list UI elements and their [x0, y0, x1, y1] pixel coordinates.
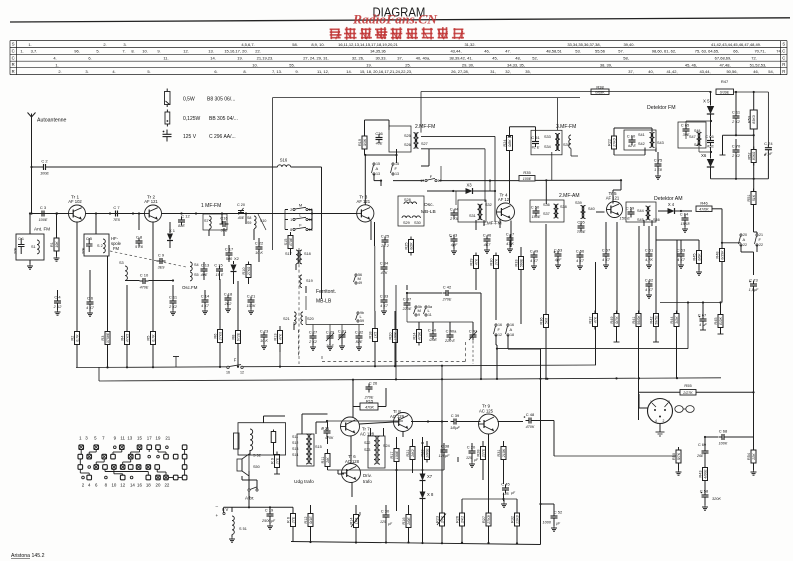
- resistor R45b: [714, 312, 723, 331]
- svg-text:125 V: 125 V: [183, 134, 197, 140]
- watermark CJK char 4: [375, 27, 387, 39]
- wire trimmer bottoms: [327, 340, 345, 350]
- coil S28: [404, 198, 417, 204]
- svg-text:1: 1: [290, 218, 292, 222]
- svg-text:S14: S14: [292, 453, 298, 457]
- wire C42: [406, 292, 481, 379]
- wire antenna node to C2: [32, 166, 42, 168]
- svg-text:C 46: C 46: [483, 232, 492, 237]
- svg-text:Detektor FM: Detektor FM: [647, 105, 676, 111]
- wire mid bus y180: [393, 179, 622, 204]
- watermark CJK char 2: [344, 27, 357, 40]
- capacitor C5: [82, 237, 93, 255]
- svg-text:S40: S40: [588, 207, 595, 211]
- top bus upper: [421, 91, 711, 93]
- svg-text:X3: X3: [466, 183, 472, 188]
- svg-text:S 51: S 51: [239, 527, 247, 531]
- wire C65 S47 links: [686, 120, 712, 153]
- wire C61: [646, 226, 652, 268]
- wire mixer node: [221, 212, 247, 224]
- svg-text:45,: 45,: [492, 56, 498, 61]
- svg-text:2.MF-AM: 2.MF-AM: [559, 193, 580, 199]
- svg-text:8,9, 10.: 8,9, 10.: [311, 42, 324, 47]
- svg-text:S39: S39: [575, 201, 582, 205]
- switch L tune: [424, 305, 433, 317]
- svg-text:10.: 10.: [252, 63, 258, 68]
- svg-text:S26: S26: [404, 143, 411, 147]
- capacitor C6: [86, 295, 95, 310]
- svg-text:C: C: [12, 48, 15, 53]
- capacitor C9: [157, 253, 166, 270]
- bottom bus: [291, 504, 541, 545]
- vertical x596: [0, 0, 1, 1]
- svg-text:470K: 470K: [417, 331, 421, 340]
- svg-text:6.: 6.: [214, 69, 217, 74]
- svg-text:S8: S8: [247, 216, 251, 220]
- svg-text:R12: R12: [304, 517, 308, 524]
- svg-text:58/5E: 58/5E: [654, 315, 658, 325]
- resistor R36: [540, 312, 549, 331]
- IF transformer S31 S32: [469, 203, 492, 220]
- svg-text:320K: 320K: [712, 497, 721, 501]
- svg-text:17: 17: [420, 179, 424, 183]
- svg-text:4: 4: [655, 419, 657, 423]
- diode X1: [167, 222, 176, 248]
- capacitor C4: [53, 294, 63, 309]
- svg-text:2: 2: [290, 208, 292, 212]
- wire loop 2MF-AM: [530, 200, 564, 222]
- svg-text:0,7K: 0,7K: [151, 334, 155, 342]
- svg-text:1.: 1.: [20, 49, 23, 54]
- svg-text:C 25: C 25: [381, 233, 390, 238]
- svg-text:8: 8: [290, 228, 292, 232]
- svg-text:S23: S23: [364, 448, 370, 452]
- capacitor C68: [719, 429, 728, 446]
- svg-text:R17: R17: [390, 452, 394, 459]
- capacitor C1: [14, 237, 25, 255]
- capacitor C40: [428, 327, 438, 342]
- svg-text:9: 9: [418, 313, 420, 317]
- svg-text:R5: R5: [147, 336, 151, 341]
- transistor Tr3: [357, 194, 374, 222]
- svg-text:R51: R51: [747, 195, 751, 202]
- capacitor C11b: [731, 92, 741, 136]
- svg-text:672E: 672E: [236, 332, 240, 341]
- switch M mid: [354, 273, 363, 285]
- svg-text:Osc.: Osc.: [424, 202, 434, 208]
- capacitor C65: [681, 122, 690, 137]
- label Detektor AM: [654, 196, 683, 202]
- svg-text:0,7K: 0,7K: [75, 334, 79, 342]
- capacitor C2: [40, 159, 49, 176]
- wire vertical x272: [272, 98, 274, 250]
- wire R49 down: [614, 327, 620, 343]
- capacitor C52: [541, 504, 563, 526]
- svg-text:C: C: [12, 55, 15, 60]
- svg-text:S47: S47: [689, 135, 696, 139]
- svg-text:27K0: 27K0: [247, 267, 251, 276]
- svg-text:2/K2: 2/K2: [460, 516, 464, 524]
- svg-text:FM: FM: [113, 246, 120, 251]
- capacitor C26: [364, 380, 378, 399]
- coil S3: [119, 261, 127, 280]
- switch L mid: [356, 311, 365, 323]
- svg-text:S: S: [12, 42, 15, 47]
- svg-text:S45: S45: [637, 218, 644, 222]
- wire AF right join: [741, 232, 757, 275]
- svg-text:3/2K: 3/2K: [675, 316, 679, 324]
- wire R33 down: [520, 247, 522, 324]
- wire C67: [700, 303, 706, 331]
- svg-text:227E: 227E: [481, 448, 485, 458]
- wire Tr9 out: [498, 421, 524, 423]
- legend 0.5W text: [183, 97, 235, 103]
- wire R45b down: [660, 301, 724, 334]
- wire R6: [219, 279, 221, 367]
- svg-text:3758E: 3758E: [106, 332, 110, 343]
- label 1 MF-FM: [201, 203, 221, 209]
- wire Tr5 base link: [596, 211, 605, 213]
- svg-text:47.: 47.: [505, 49, 511, 54]
- svg-text:S29: S29: [403, 221, 410, 225]
- svg-text:27E: 27E: [14, 247, 18, 255]
- svg-text:R: R: [782, 69, 785, 74]
- svg-text:Autoantenne: Autoantenne: [37, 118, 67, 124]
- resistor R29: [470, 253, 479, 272]
- resistor R13: [274, 328, 283, 347]
- wire R43: [704, 456, 706, 468]
- svg-text:75, 63, 64,65,: 75, 63, 64,65,: [695, 49, 719, 54]
- svg-text:3.: 3.: [85, 69, 88, 74]
- svg-text:X7: X7: [427, 474, 433, 479]
- label 2.MF-FM: [415, 124, 435, 130]
- wire antenna down: [30, 123, 32, 215]
- svg-text:R50: R50: [672, 453, 676, 460]
- wire C56 gnd: [577, 260, 583, 269]
- label Osc MB-LB: [421, 202, 436, 215]
- resistor R15: [360, 399, 378, 411]
- wire driv trafo frame: [368, 436, 385, 468]
- svg-text:47K5: 47K5: [125, 334, 129, 342]
- wire R44 down: [676, 327, 678, 379]
- wire C64 gnd: [682, 223, 688, 232]
- svg-text:16: 16: [226, 371, 230, 375]
- svg-text:10K: 10K: [55, 241, 59, 248]
- svg-text:39,40.: 39,40.: [623, 42, 634, 47]
- capacitor C70: [731, 139, 741, 179]
- svg-text:S16: S16: [280, 158, 288, 163]
- svg-text:57.: 57.: [618, 49, 624, 54]
- wire S31 bottom: [476, 220, 484, 230]
- svg-text:13: 13: [127, 436, 132, 441]
- svg-text:13: 13: [376, 172, 380, 176]
- resistor R32: [511, 499, 520, 544]
- svg-text:22: 22: [164, 483, 169, 488]
- svg-text:S3: S3: [119, 261, 124, 265]
- svg-text:3,7.: 3,7.: [31, 49, 38, 54]
- wire Tr3 collector up: [364, 154, 366, 205]
- resistor R3: [101, 329, 110, 348]
- resistor R42: [650, 311, 659, 330]
- svg-text:46,: 46,: [753, 69, 759, 74]
- wire 3mf to bus: [557, 98, 559, 130]
- resistor R16: [402, 512, 411, 531]
- wire C63: [678, 240, 684, 268]
- wire loop 1MF-FM: [458, 200, 486, 222]
- svg-text:12: 12: [240, 371, 244, 375]
- wire Tr1 emitter down: [76, 222, 78, 226]
- resistor R20: [389, 327, 398, 346]
- wire R41 down: [638, 327, 640, 379]
- svg-text:trafo: trafo: [363, 479, 372, 484]
- svg-text:S46: S46: [653, 218, 660, 222]
- wire det fm rail: [711, 135, 769, 180]
- svg-text:C 64: C 64: [680, 211, 689, 216]
- svg-text:C 48: C 48: [526, 412, 535, 417]
- svg-text:15: 15: [137, 436, 142, 441]
- svg-text:X2: X2: [234, 256, 240, 261]
- svg-text:AC 125: AC 125: [479, 409, 494, 414]
- top bus upper right: [709, 91, 768, 146]
- svg-text:50,56,: 50,56,: [726, 69, 737, 74]
- svg-text:R31: R31: [497, 450, 501, 457]
- svg-text:100K: 100K: [719, 442, 728, 446]
- wire C11: [170, 285, 176, 315]
- resistor R8: [232, 328, 241, 347]
- wire tuning pack tops: [407, 285, 473, 332]
- svg-text:27E: 27E: [275, 457, 279, 465]
- wire C73 down: [753, 289, 755, 393]
- capacitor C17: [225, 246, 234, 261]
- coil S2: [97, 239, 105, 253]
- svg-text:A: A: [743, 237, 746, 242]
- svg-text:74.: 74.: [776, 49, 782, 54]
- wire Tr2 collector bias: [152, 222, 154, 226]
- svg-text:C 18: C 18: [224, 291, 233, 296]
- svg-text:34,35,36: 34,35,36: [370, 49, 386, 54]
- svg-text:C 60: C 60: [627, 133, 636, 138]
- wire R29 down: [475, 269, 477, 290]
- svg-text:26E: 26E: [696, 454, 704, 458]
- svg-text:AC 129: AC 129: [390, 414, 405, 419]
- legend 125V capacitor symbol: [163, 130, 172, 142]
- IF transformer S33 S34 S35: [544, 134, 571, 151]
- svg-text:S24: S24: [383, 444, 390, 448]
- resistor R9: [271, 452, 280, 471]
- capacitor C8: [135, 234, 144, 249]
- wire corner down x321: [321, 167, 323, 299]
- svg-text:C 26: C 26: [369, 380, 378, 385]
- svg-text:16: 16: [137, 483, 142, 488]
- watermark RadioFans.CN: [352, 12, 438, 27]
- svg-text:9.: 9.: [157, 49, 160, 54]
- svg-text:45, 46,: 45, 46,: [685, 63, 697, 68]
- wire R19 C36 top: [365, 120, 390, 136]
- svg-text:C 20: C 20: [467, 444, 476, 449]
- capacitor C46: [483, 232, 492, 247]
- capacitor C19: [261, 507, 276, 523]
- svg-text:26, 27,28,: 26, 27,28,: [451, 69, 469, 74]
- potentiometer R14: [350, 512, 360, 531]
- diode X8: [420, 488, 434, 504]
- svg-text:Afbr.: Afbr.: [245, 496, 254, 501]
- resistor R51: [747, 189, 756, 208]
- resistor R49: [610, 311, 619, 330]
- svg-text:X 4: X 4: [668, 202, 675, 207]
- wire mid verticals: [441, 166, 491, 205]
- svg-text:56/0K: 56/0K: [637, 315, 641, 325]
- speaker S50: [237, 454, 260, 476]
- svg-text:C 9: C 9: [158, 253, 165, 258]
- speaker box: [234, 423, 286, 455]
- svg-text:7E5: 7E5: [113, 218, 121, 222]
- svg-text:4.: 4.: [53, 56, 56, 61]
- svg-text:C 2: C 2: [41, 159, 48, 164]
- antenna symbol: [28, 113, 36, 123]
- resistor R45: [693, 248, 702, 267]
- wire s21 down: [294, 296, 306, 330]
- wire S16 to corner: [291, 166, 322, 168]
- svg-text:Driv.: Driv.: [363, 473, 372, 478]
- svg-text:C 296 AA/...: C 296 AA/...: [209, 134, 236, 140]
- svg-text:470E: 470E: [140, 286, 149, 290]
- IF transformer S39 S40: [575, 201, 595, 219]
- svg-text:32, 26,: 32, 26,: [352, 56, 364, 61]
- resistor R33: [515, 254, 524, 273]
- wire C57: [603, 222, 609, 268]
- resistor R22: [608, 133, 617, 152]
- svg-text:33,34,35,36,37,38,: 33,34,35,36,37,38,: [567, 42, 600, 47]
- transistor Tr8: [390, 409, 413, 432]
- capacitor C22: [255, 240, 264, 255]
- watermark CJK char 6: [406, 28, 418, 40]
- svg-text:1 MF-FM: 1 MF-FM: [201, 203, 221, 209]
- svg-text:3E9: 3E9: [158, 266, 166, 270]
- svg-text:R42: R42: [650, 317, 654, 324]
- svg-text:C 10: C 10: [140, 273, 149, 278]
- svg-text:R35: R35: [523, 170, 531, 175]
- svg-text:19.: 19.: [366, 63, 372, 68]
- wire vertical x396 mid: [395, 285, 397, 381]
- capacitor C40a: [444, 328, 457, 343]
- label Ferritont MB-LB: [316, 289, 336, 305]
- vertical x569: [0, 0, 1, 1]
- svg-text:4,5,6,7.: 4,5,6,7.: [241, 42, 254, 47]
- svg-text:27E: 27E: [82, 247, 86, 255]
- capacitor C48: [524, 412, 535, 429]
- capacitor C12: [178, 213, 190, 228]
- svg-text:8.: 8.: [243, 69, 246, 74]
- wire R9: [274, 468, 293, 542]
- capacitor C62: [645, 277, 654, 292]
- svg-text:37,: 37,: [397, 56, 403, 61]
- svg-text:C55: C55: [577, 219, 585, 224]
- svg-text:C: C: [782, 48, 785, 53]
- wire osc link: [125, 279, 174, 281]
- svg-text:22: 22: [743, 243, 747, 247]
- resistor R2: [71, 329, 80, 348]
- svg-text:S1: S1: [31, 245, 36, 249]
- capacitor C63: [677, 247, 686, 262]
- capacitor C49: [530, 248, 539, 263]
- svg-text:0/1E: 0/1E: [309, 516, 313, 524]
- wire det AM S44 bottom: [644, 220, 652, 226]
- svg-text:S 2: S 2: [97, 244, 103, 248]
- svg-text:S4: S4: [194, 263, 199, 267]
- svg-text:R11: R11: [321, 457, 325, 464]
- wire Tr7 Tr8: [360, 422, 394, 424]
- wire rail to Tr5: [613, 181, 621, 204]
- resistor R44: [670, 311, 679, 330]
- wire C21 gnd: [248, 305, 254, 314]
- svg-text:C 50: C 50: [531, 204, 540, 209]
- label 2.MF-AM: [559, 193, 580, 199]
- svg-text:47K: 47K: [278, 333, 282, 340]
- svg-text:AF 121: AF 121: [144, 199, 158, 204]
- svg-text:1000: 1000: [543, 521, 552, 525]
- resistor R43: [699, 465, 708, 484]
- switch M: [290, 203, 312, 212]
- coil S7: [203, 214, 227, 230]
- output transformer S11-S14: [292, 434, 322, 464]
- svg-text:S37: S37: [543, 212, 550, 216]
- capacitor C34: [380, 260, 389, 275]
- svg-text:46,: 46,: [484, 49, 490, 54]
- svg-text:41,42,43,44,45,46,47,48,49.: 41,42,43,44,45,46,47,48,49.: [711, 42, 761, 47]
- resistor R30: [490, 253, 499, 272]
- svg-text:R47: R47: [721, 79, 729, 84]
- wire C4: [55, 290, 61, 315]
- table location numbers: [20, 42, 781, 74]
- ground ant tank: [27, 260, 33, 269]
- switch F: [290, 223, 312, 232]
- coil S4: [190, 262, 199, 271]
- svg-text:X 5: X 5: [703, 99, 710, 104]
- svg-text:S42: S42: [638, 142, 645, 146]
- resistor R41: [632, 311, 641, 330]
- switch F right: [755, 233, 764, 247]
- resistor R54: [747, 447, 756, 466]
- svg-text:AF 102: AF 102: [68, 199, 82, 204]
- svg-text:700E: 700E: [577, 230, 586, 234]
- capacitor C50: [531, 204, 541, 219]
- svg-text:S 52: S 52: [253, 454, 261, 458]
- switch contact F bottom left: [226, 358, 244, 375]
- resistor R53: [747, 92, 757, 136]
- wire fm row: [32, 213, 69, 215]
- trimmer C20b: [237, 203, 245, 220]
- svg-text:C 39: C 39: [451, 413, 460, 418]
- watermark CJK char 1: [330, 29, 342, 40]
- wire C27 gnd: [310, 341, 316, 350]
- watermark CJK char 7: [421, 27, 434, 39]
- svg-text:S9: S9: [247, 221, 251, 225]
- svg-text:11: 11: [428, 313, 432, 317]
- diode X6: [701, 147, 714, 179]
- svg-text:67,68,69,: 67,68,69,: [715, 56, 732, 61]
- svg-text:560E: 560E: [519, 258, 523, 267]
- vertical x638 low: [638, 378, 640, 420]
- component location table grid: [10, 41, 787, 75]
- transistor Tr7: [341, 417, 375, 437]
- svg-text:C 30: C 30: [381, 508, 390, 513]
- wire R8: [237, 281, 239, 367]
- svg-text:AF 121: AF 121: [357, 199, 371, 204]
- capacitor C43: [449, 232, 458, 247]
- wire S27 down: [421, 136, 497, 222]
- wire C39 Tr9: [460, 421, 481, 423]
- svg-text:R10: R10: [242, 268, 246, 275]
